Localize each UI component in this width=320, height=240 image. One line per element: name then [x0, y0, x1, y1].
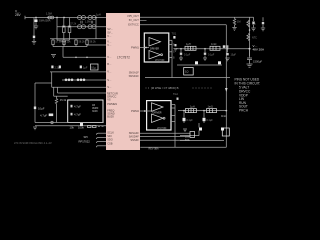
capacitor C9	[71, 113, 73, 116]
svg-text:V…: V…	[107, 43, 112, 47]
wire sense line A	[51, 72, 53, 87]
svg-text:1µF: 1µF	[83, 67, 88, 70]
wire winding row	[62, 79, 106, 81]
IC U1 LTC7872	[106, 13, 140, 150]
svg-text:REV 0BA: REV 0BA	[149, 147, 160, 150]
wire SPI right SNS lines	[140, 132, 190, 134]
svg-text:SASD4F: SASD4F	[129, 135, 140, 139]
resistor R7	[56, 96, 58, 98]
resistor R2	[56, 18, 58, 41]
node junction dots top bus	[35, 17, 97, 19]
svg-text:5V_OUT: 5V_OUT	[129, 18, 140, 22]
svg-text:S…: S…	[107, 78, 112, 82]
svg-text:1M: 1M	[237, 21, 240, 24]
svg-text:SNS4F: SNS4F	[130, 138, 139, 142]
wire	[57, 39, 70, 41]
wire driver rail	[171, 40, 173, 77]
inductor T2 bottom winding	[88, 25, 92, 29]
wire EXTVCC rail	[140, 24, 226, 26]
svg-text:1µH: 1µH	[186, 43, 191, 46]
wire into IC	[96, 38, 106, 40]
svg-text:RP17022: RP17022	[79, 140, 91, 144]
capacitor C5 box	[91, 64, 99, 70]
wire mid horizontal into IC	[62, 47, 64, 58]
svg-text:LTC7060: LTC7060	[157, 128, 167, 130]
ferrite bead FB1	[48, 16, 51, 19]
op-amp buffer top	[152, 103, 164, 112]
capacitor C4	[80, 66, 82, 69]
wire	[198, 123, 200, 128]
wire second rail	[57, 26, 106, 28]
resistor RS1	[210, 46, 220, 50]
wire PWM1 to driver	[140, 47, 149, 49]
svg-text:VS: VS	[107, 98, 111, 102]
svg-text:SCLK: SCLK	[107, 131, 114, 135]
resistor R9a	[247, 20, 250, 27]
svg-text:1.5M: 1.5M	[46, 12, 52, 16]
sense module RS4 box	[222, 128, 229, 136]
capacitor C1	[33, 18, 35, 36]
transistor Q3	[199, 128, 202, 131]
inductor T1 bottom winding	[78, 25, 82, 29]
svg-text:PWMEN: PWMEN	[107, 102, 117, 106]
capacitor C18	[177, 98, 179, 100]
wire VOUT vertical	[249, 17, 251, 56]
resistor R4	[63, 39, 65, 47]
ground	[261, 28, 265, 31]
transistor Q1	[195, 61, 198, 64]
ground	[251, 28, 255, 31]
svg-text:LTC IN SUM OSCILLOSC 4.1–4V: LTC IN SUM OSCILLOSC 4.1–4V	[14, 142, 52, 145]
wire	[180, 140, 224, 142]
driver U2 pins	[169, 40, 172, 57]
ground	[225, 58, 229, 61]
svg-text:10k: 10k	[70, 125, 75, 129]
resistor R6	[86, 39, 88, 47]
capacitor C11	[180, 49, 182, 52]
svg-text:48V 20A: 48V 20A	[253, 48, 265, 52]
capacitor C12	[204, 49, 206, 52]
svg-text:SNSA4F: SNSA4F	[129, 131, 140, 135]
svg-text:3048: 3048	[92, 110, 98, 113]
transistor Q2	[218, 61, 221, 64]
svg-text:SNSA1F: SNSA1F	[129, 71, 140, 75]
node VOUT	[249, 48, 251, 50]
svg-text:V…: V…	[107, 55, 112, 59]
wire	[95, 18, 97, 39]
svg-text:PWM1: PWM1	[131, 46, 139, 50]
resistor R5	[75, 39, 77, 47]
op-amp buffer bottom	[152, 114, 164, 123]
node VHIGH input label	[15, 10, 22, 18]
svg-text:SDO: SDO	[107, 138, 113, 142]
svg-text:V…: V…	[107, 70, 112, 74]
resistor R8	[234, 17, 236, 18]
svg-text:PWM4: PWM4	[131, 109, 139, 113]
wire rail upper mid	[50, 38, 96, 40]
resistor RS5	[207, 109, 217, 113]
capacitor C10	[175, 44, 177, 46]
svg-text:VP5_OUT: VP5_OUT	[127, 14, 139, 18]
resistor R12	[93, 126, 97, 128]
ground	[183, 129, 187, 132]
inductor L2 spec	[92, 104, 99, 113]
svg-text:1Ω: 1Ω	[185, 70, 188, 74]
connector J1	[190, 132, 195, 138]
svg-text:0.1µF: 0.1µF	[208, 54, 215, 57]
wire VLOW vertical	[34, 83, 36, 123]
capacitor C16	[183, 111, 185, 118]
svg-text:1mΩ: 1mΩ	[208, 105, 213, 108]
driver U2 box	[144, 33, 169, 62]
svg-text:1.5M: 1.5M	[85, 20, 90, 23]
svg-text:37.2k: 37.2k	[70, 23, 77, 26]
arrow current	[225, 88, 228, 92]
resistor R3	[52, 39, 54, 47]
ground	[33, 127, 37, 130]
svg-text:0.1µF: 0.1µF	[207, 119, 214, 122]
wire VP5 rail	[140, 16, 254, 18]
inductor T1 coupled top winding	[78, 16, 82, 20]
svg-text:45.3k: 45.3k	[60, 98, 67, 102]
svg-text:DRIVER: DRIVER	[153, 112, 162, 115]
svg-text:9mΩ: 9mΩ	[221, 115, 226, 118]
power module M1 box	[68, 100, 103, 123]
svg-text:4.7µF: 4.7µF	[74, 113, 81, 117]
resistor R2c	[69, 18, 71, 27]
ground	[62, 42, 66, 45]
wire	[53, 87, 55, 96]
capacitor C8	[71, 105, 73, 108]
svg-text:57.6k: 57.6k	[56, 41, 63, 44]
capacitor C6	[34, 107, 36, 110]
svg-text:0.1µF: 0.1µF	[187, 119, 194, 122]
inductor winding dots	[65, 79, 86, 82]
svg-text:1µH: 1µH	[190, 105, 195, 108]
svg-text:SNSD1F: SNSD1F	[129, 74, 140, 78]
wire 5V stub	[140, 20, 147, 22]
svg-text:28V: 28V	[15, 13, 22, 17]
resistor R10 label	[185, 136, 190, 142]
text PINS NOT USED note	[235, 78, 261, 113]
ground	[51, 55, 56, 58]
svg-text:[M WSE / CT 48KD] B: [M WSE / CT 48KD] B	[151, 86, 179, 90]
svg-text:B…: B…	[107, 62, 112, 66]
svg-text:EXTVCC: EXTVCC	[128, 23, 139, 27]
svg-text:4.7µF: 4.7µF	[74, 105, 81, 109]
resistor R2b	[63, 26, 66, 33]
wire	[177, 64, 222, 66]
svg-text:PRCH: PRCH	[239, 109, 249, 113]
inductor L3	[185, 109, 196, 113]
resistor R11	[88, 126, 92, 128]
svg-text:BUZK: BUZK	[107, 115, 114, 119]
resistor R9	[247, 34, 250, 41]
svg-text:S…: S…	[107, 85, 112, 89]
wire bottom return	[140, 146, 226, 148]
svg-text:V…: V…	[107, 34, 112, 38]
svg-text:56.2k: 56.2k	[79, 41, 86, 44]
wire PGND phase1	[145, 77, 230, 79]
wire bottom bus	[35, 122, 103, 124]
wire	[180, 135, 199, 137]
svg-text:1µH: 1µH	[96, 14, 101, 17]
capacitor C15 stub	[253, 17, 255, 21]
wire sense line B	[57, 87, 59, 93]
svg-text:0.1µ: 0.1µ	[91, 66, 96, 69]
inductor T2 coupled top winding	[88, 16, 92, 20]
svg-text:NTC: NTC	[252, 37, 257, 40]
ground	[32, 41, 36, 44]
wire phase1 SW	[176, 48, 250, 50]
wire lower rail	[53, 46, 87, 48]
note two-phase annotation	[151, 86, 179, 90]
svg-text:DRIVER: DRIVER	[150, 48, 159, 51]
capacitor C14	[249, 49, 251, 58]
capacitor C2	[51, 66, 53, 69]
op-amp buffer top	[149, 38, 161, 47]
wire PWM4 to driver	[140, 110, 152, 112]
wire SPI hooks	[97, 133, 107, 147]
wire rail under caps	[50, 71, 106, 73]
sense module RS2 box	[184, 68, 194, 76]
svg-text:SV…: SV…	[107, 27, 113, 31]
driver U3 box	[147, 101, 171, 130]
svg-text:SV…: SV…	[107, 31, 113, 35]
svg-text:TG4: TG4	[173, 93, 178, 96]
junction	[80, 123, 83, 126]
node MCU labels	[79, 135, 91, 144]
capacitor C13	[227, 49, 229, 53]
svg-text:1500µF: 1500µF	[253, 60, 263, 64]
wire	[63, 18, 65, 27]
wire phase2 SW	[178, 110, 226, 112]
svg-text:TG1: TG1	[172, 32, 177, 35]
transistor label marks	[223, 45, 226, 48]
svg-text:100k: 100k	[78, 125, 84, 129]
svg-text:LTC7060: LTC7060	[155, 60, 165, 62]
transistor Q4	[221, 128, 224, 131]
node dots second rail	[63, 26, 71, 28]
ground	[34, 26, 38, 29]
driver U3 pins	[171, 105, 175, 122]
svg-text:LTC7872: LTC7872	[117, 56, 130, 60]
diode D1	[35, 18, 37, 26]
svg-text:1mΩ: 1mΩ	[211, 43, 216, 46]
svg-text:0.1µF: 0.1µF	[184, 54, 191, 57]
wire driver2 rail	[174, 105, 176, 148]
svg-text:10µF: 10µF	[231, 54, 237, 57]
svg-text:SPI: SPI	[84, 135, 89, 139]
node circle	[51, 121, 53, 123]
capacitor C15b stub	[262, 17, 264, 21]
capacitor C17	[203, 111, 205, 118]
op-amp buffer bottom	[149, 51, 161, 60]
svg-text:CSB: CSB	[107, 142, 113, 146]
node input terminal	[24, 16, 26, 19]
wire dashes	[98, 126, 100, 128]
inductor L1	[185, 46, 196, 50]
capacitor C3	[59, 66, 61, 69]
svg-text:10µF: 10µF	[38, 107, 45, 111]
ground	[247, 64, 253, 67]
wire top input bus	[25, 17, 106, 19]
wire VLOW right vertical	[225, 25, 227, 148]
svg-text:4.7µF: 4.7µF	[40, 114, 47, 118]
svg-text:56.2k: 56.2k	[90, 41, 97, 44]
